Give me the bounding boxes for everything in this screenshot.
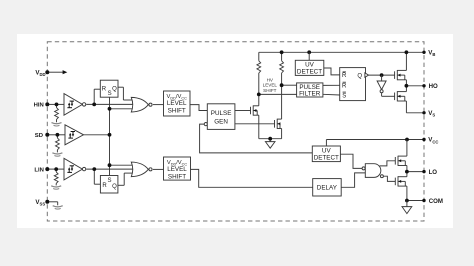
svg-text:S: S xyxy=(108,91,112,97)
svg-text:VB: VB xyxy=(428,50,435,58)
svg-text:R: R xyxy=(342,84,347,90)
svg-text:COM: COM xyxy=(429,198,443,205)
svg-text:SHIFT: SHIFT xyxy=(263,88,276,93)
svg-text:VSS: VSS xyxy=(35,199,45,207)
svg-text:VS: VS xyxy=(428,110,435,118)
svg-text:SD: SD xyxy=(35,133,43,139)
svg-text:LEVEL: LEVEL xyxy=(263,83,278,88)
svg-text:HIN: HIN xyxy=(34,103,44,109)
svg-text:DETECT: DETECT xyxy=(297,69,322,76)
svg-text:LEVEL: LEVEL xyxy=(167,100,187,107)
svg-text:DETECT: DETECT xyxy=(314,154,339,161)
svg-text:VCC: VCC xyxy=(428,137,438,145)
svg-text:Q: Q xyxy=(112,87,117,93)
svg-text:Q: Q xyxy=(112,184,117,190)
svg-text:R: R xyxy=(102,87,107,93)
svg-text:R: R xyxy=(342,73,347,79)
svg-text:SHIFT: SHIFT xyxy=(168,107,186,114)
svg-text:LEVEL: LEVEL xyxy=(167,166,187,173)
svg-text:HO: HO xyxy=(429,83,438,90)
svg-text:PULSE: PULSE xyxy=(211,110,232,117)
svg-text:VDD: VDD xyxy=(35,69,45,77)
svg-text:SHIFT: SHIFT xyxy=(168,173,186,180)
svg-text:GEN: GEN xyxy=(214,118,228,125)
svg-text:LIN: LIN xyxy=(34,167,44,173)
svg-text:LO: LO xyxy=(429,169,438,176)
svg-text:DELAY: DELAY xyxy=(317,185,338,192)
svg-text:UV: UV xyxy=(322,147,332,154)
svg-text:Q: Q xyxy=(357,73,362,79)
svg-text:S: S xyxy=(107,178,111,184)
svg-text:FILTER: FILTER xyxy=(299,91,321,98)
svg-text:R: R xyxy=(102,183,107,189)
svg-text:S: S xyxy=(342,93,346,99)
